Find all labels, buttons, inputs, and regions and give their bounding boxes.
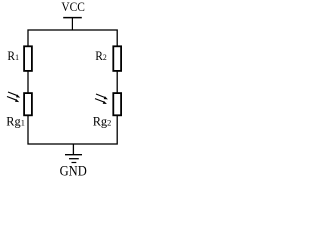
- strain gauge Rg1 arrow 2: [7, 97, 19, 103]
- strain gauge Rg1 body: [24, 93, 32, 115]
- strain gauge Rg2 arrow 1: [96, 94, 108, 99]
- wire VCC stem to top rail: [71, 18, 73, 30]
- strain gauge Rg2 body: [113, 93, 121, 115]
- ground bar 2: [69, 158, 79, 160]
- wire bottom rail to ground: [72, 144, 74, 155]
- wire bridge loop: top rail, left branch, right branch, bottom rail: [28, 30, 117, 144]
- strain gauge Rg1 arrow 1: [8, 92, 20, 98]
- strain gauge Rg2 arrow 2: [95, 99, 107, 104]
- resistor R2 body: [113, 46, 121, 71]
- svg-text:VCC: VCC: [61, 0, 85, 14]
- resistor R1 body: [24, 46, 32, 71]
- ground bar 1: [65, 154, 82, 156]
- VCC power bar: [63, 17, 82, 19]
- ground bar 3: [72, 162, 77, 164]
- svg-text:GND: GND: [60, 163, 87, 179]
